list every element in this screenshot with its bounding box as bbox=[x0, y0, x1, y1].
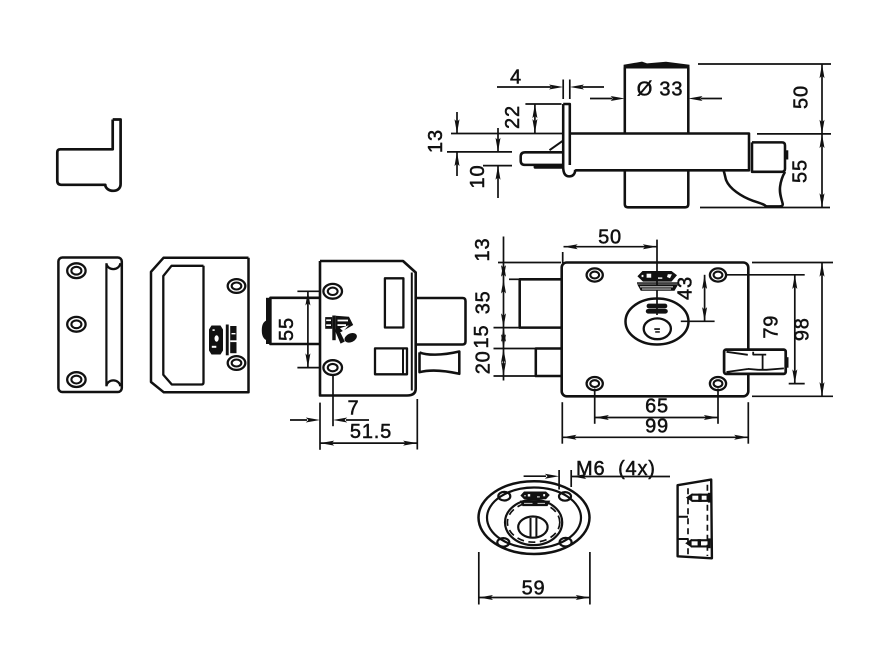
bolt bevel diagonal bbox=[550, 141, 563, 150]
label M6 (4x) bbox=[524, 470, 670, 490]
bolt window upper (side view) bbox=[385, 278, 404, 327]
rose logo row1 bbox=[520, 492, 549, 500]
svg-text:15: 15 bbox=[471, 325, 493, 349]
thumbturn slot bbox=[531, 518, 537, 537]
svg-text:13: 13 bbox=[425, 129, 447, 153]
dim 79 bbox=[727, 275, 805, 384]
svg-text:22: 22 bbox=[502, 105, 524, 129]
rose inner ring bbox=[487, 488, 581, 549]
dim 99 bbox=[562, 402, 748, 444]
dim 55 (right lower) bbox=[700, 134, 830, 208]
front screw hole BR bbox=[710, 377, 726, 390]
dim 22 bbox=[525, 104, 561, 134]
svg-text:43: 43 bbox=[675, 276, 697, 300]
front screw hole TR bbox=[710, 268, 726, 281]
strike plate outline bbox=[58, 258, 121, 393]
dim 65 bbox=[595, 389, 718, 424]
latch stub (front left lower) bbox=[536, 349, 562, 377]
brand logo band B bbox=[637, 284, 678, 290]
svg-text:51.5: 51.5 bbox=[350, 421, 392, 443]
lock case front plate bbox=[562, 263, 749, 397]
brand logo band A (front) bbox=[637, 271, 677, 282]
boss ellipse bbox=[505, 500, 562, 545]
svg-text:55: 55 bbox=[790, 159, 812, 183]
svg-text:65: 65 bbox=[645, 396, 669, 418]
rose logo row2 bbox=[520, 501, 551, 507]
back plate outline bbox=[151, 258, 249, 393]
screw hole 2 bbox=[67, 317, 85, 332]
svg-text:98: 98 bbox=[791, 317, 813, 341]
dim 20 (front) bbox=[494, 349, 536, 377]
screw post upper bbox=[323, 284, 342, 299]
back plate inner recess bbox=[163, 266, 203, 385]
lock case (side view) bbox=[320, 261, 416, 396]
M6 hole BR bbox=[560, 538, 572, 547]
latch bolt (front right) bbox=[724, 350, 788, 374]
rose logo white details bbox=[524, 494, 545, 504]
knob neck (top view) bbox=[752, 142, 785, 171]
back plate hole lower bbox=[228, 356, 246, 370]
cylinder housing stub (front left upper) bbox=[520, 279, 562, 327]
svg-text:50: 50 bbox=[598, 227, 622, 249]
svg-text:7: 7 bbox=[348, 398, 360, 420]
wedge dashed hole lines bbox=[688, 485, 707, 556]
bolt window lower (side view) bbox=[375, 348, 407, 374]
centerline bbox=[656, 240, 658, 315]
svg-text:35: 35 bbox=[473, 290, 495, 314]
dim 50 (right upper) bbox=[698, 64, 831, 134]
M6 hole TL bbox=[498, 492, 510, 501]
dim 7 bbox=[290, 376, 369, 450]
wedge screw lower bbox=[685, 538, 710, 548]
svg-text:13: 13 bbox=[472, 238, 494, 262]
screw hole 3 bbox=[67, 372, 85, 387]
cylinder rose (front) bbox=[626, 299, 689, 345]
cylinder section black detail bbox=[209, 325, 237, 356]
knob wing (top view) bbox=[724, 171, 785, 207]
dashed circle bbox=[507, 503, 559, 543]
M6 hole BL bbox=[497, 538, 509, 547]
dim 4 (top) bbox=[497, 80, 604, 100]
fixing clip bbox=[57, 120, 120, 191]
wedge spacer outline bbox=[678, 480, 712, 559]
wedge left notch lines bbox=[678, 517, 688, 539]
thumbturn (rose) bbox=[518, 517, 547, 538]
svg-text:79: 79 bbox=[761, 315, 783, 339]
svg-text:99: 99 bbox=[645, 416, 669, 438]
knob pin black tick bbox=[785, 150, 788, 159]
screw post lower bbox=[323, 360, 342, 375]
thumbturn slot dashes bbox=[654, 328, 660, 333]
screw hole 1 bbox=[67, 263, 85, 278]
front screw hole BL bbox=[587, 377, 603, 390]
svg-text:20: 20 bbox=[473, 350, 495, 374]
dim 43 bbox=[681, 275, 715, 322]
latch bolt lower plate bbox=[535, 165, 562, 167]
thumbturn (front) bbox=[644, 318, 671, 339]
svg-text:59: 59 bbox=[522, 578, 546, 600]
cylinder (vertical, top view) bbox=[625, 68, 689, 208]
dim 13 (top view) bbox=[447, 112, 563, 176]
cylinder black cap band bbox=[624, 62, 690, 69]
wedge screw upper bbox=[686, 493, 711, 503]
latch bolt tip (top view) bbox=[521, 152, 563, 165]
brand logo (side view) bbox=[325, 316, 358, 345]
logo white details bbox=[640, 274, 673, 290]
lock body horizontal (top view) bbox=[570, 134, 749, 171]
dim 35 (front) bbox=[494, 279, 520, 327]
dim 10 (top view) bbox=[483, 128, 512, 198]
svg-text:10: 10 bbox=[467, 165, 489, 189]
dim 55 (side view) bbox=[297, 291, 319, 367]
front screw hole TL bbox=[587, 268, 603, 281]
strike channel bbox=[106, 263, 120, 386]
thumbturn knob (side view) bbox=[420, 352, 460, 374]
rose outer ring bbox=[479, 481, 590, 554]
brand logo thin band bbox=[637, 282, 678, 284]
dim 59 bbox=[479, 552, 590, 605]
svg-text:55: 55 bbox=[276, 317, 298, 341]
cylinder stub (left) bbox=[262, 298, 320, 344]
dim diameter 33 bbox=[590, 96, 722, 101]
dim 13 (front) bbox=[498, 237, 561, 381]
svg-text:M6 (4x): M6 (4x) bbox=[576, 458, 656, 480]
M6 hole TR bbox=[559, 492, 571, 501]
svg-text:Ø 33: Ø 33 bbox=[637, 79, 684, 101]
dim 98 bbox=[752, 263, 833, 397]
dim 51.5 bbox=[320, 399, 417, 450]
logo blob on rose bbox=[646, 304, 668, 314]
svg-text:4: 4 bbox=[510, 67, 522, 89]
cylinder housing (side view right) bbox=[416, 298, 466, 345]
back plate hole upper bbox=[228, 279, 246, 293]
dim 50 (front) bbox=[563, 244, 657, 263]
svg-text:50: 50 bbox=[791, 85, 813, 109]
faceplate flange bbox=[563, 104, 575, 176]
dim 15 (front) bbox=[494, 328, 536, 349]
